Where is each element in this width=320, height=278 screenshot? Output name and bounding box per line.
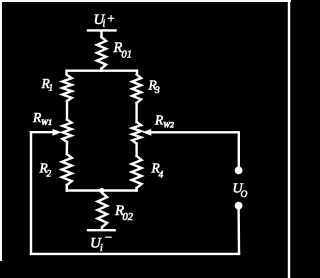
arrowhead wiper RW1 [53, 129, 62, 136]
terminal bar Ui- [88, 229, 115, 231]
resistor R2 [62, 154, 72, 185]
wire left branch upper [66, 101, 68, 120]
label R4 [151, 161, 164, 181]
resistor R4 [132, 156, 142, 188]
resistor R3 [132, 75, 141, 104]
svg-text:i: i [103, 19, 106, 30]
svg-text:O: O [241, 190, 248, 200]
potentiometer element left (wiper section) [63, 120, 72, 143]
svg-text:W2: W2 [163, 121, 174, 130]
output terminal node top [235, 167, 243, 175]
svg-text:W1: W1 [41, 118, 52, 127]
wire bottom return [31, 253, 239, 255]
label Ui+ [94, 11, 116, 30]
wire top rail [67, 71, 138, 74]
wire Ui+ to R01 [100, 31, 102, 37]
resistor R01 [97, 37, 106, 69]
svg-text:1: 1 [49, 84, 54, 94]
label R3 [148, 78, 161, 97]
wire right branch to bottom rail [135, 188, 137, 191]
terminal bar Ui+ [88, 29, 116, 31]
svg-text:02: 02 [123, 212, 134, 223]
label R01 [113, 40, 133, 61]
scan border left edge [0, 0, 2, 260]
wire left branch lower [66, 142, 69, 154]
wire right branch upper [135, 103, 137, 122]
resistor R1 [62, 75, 72, 101]
wire left return vertical [30, 132, 32, 254]
label RW1 [32, 110, 52, 127]
svg-text:01: 01 [122, 50, 133, 61]
svg-text:+: + [107, 11, 116, 26]
wire right branch lower [135, 144, 137, 157]
wire left branch to bottom rail [66, 185, 68, 191]
label R02 [114, 203, 134, 223]
wire wiper W1 arrow line [31, 131, 55, 133]
scan border right edge [288, 1, 290, 278]
wire wiper W2 arrow line [150, 131, 239, 133]
wire R01 to top rail [100, 69, 102, 71]
svg-text:4: 4 [159, 171, 164, 181]
arrowhead wiper RW2 [142, 129, 151, 136]
wire output right vertical lower [237, 206, 240, 253]
wire bottom node to R02 [101, 191, 104, 194]
potentiometer element right (wiper section) [132, 122, 141, 144]
label R1 [41, 76, 54, 94]
svg-text:2: 2 [47, 170, 52, 180]
svg-text:−: − [104, 230, 113, 245]
resistor R02 [98, 193, 108, 227]
scan border top edge [0, 0, 290, 2]
output terminal node bottom [235, 202, 243, 210]
label UO [233, 182, 248, 201]
label R2 [39, 161, 52, 180]
svg-text:i: i [100, 243, 103, 254]
wire bottom rail [67, 189, 137, 191]
label RW2 [154, 113, 174, 130]
svg-text:3: 3 [154, 86, 160, 96]
junction bottom node [99, 188, 104, 193]
wire output right vertical upper [238, 132, 240, 166]
wire R02 to Ui- bar [101, 227, 103, 230]
label Ui- [90, 230, 113, 255]
